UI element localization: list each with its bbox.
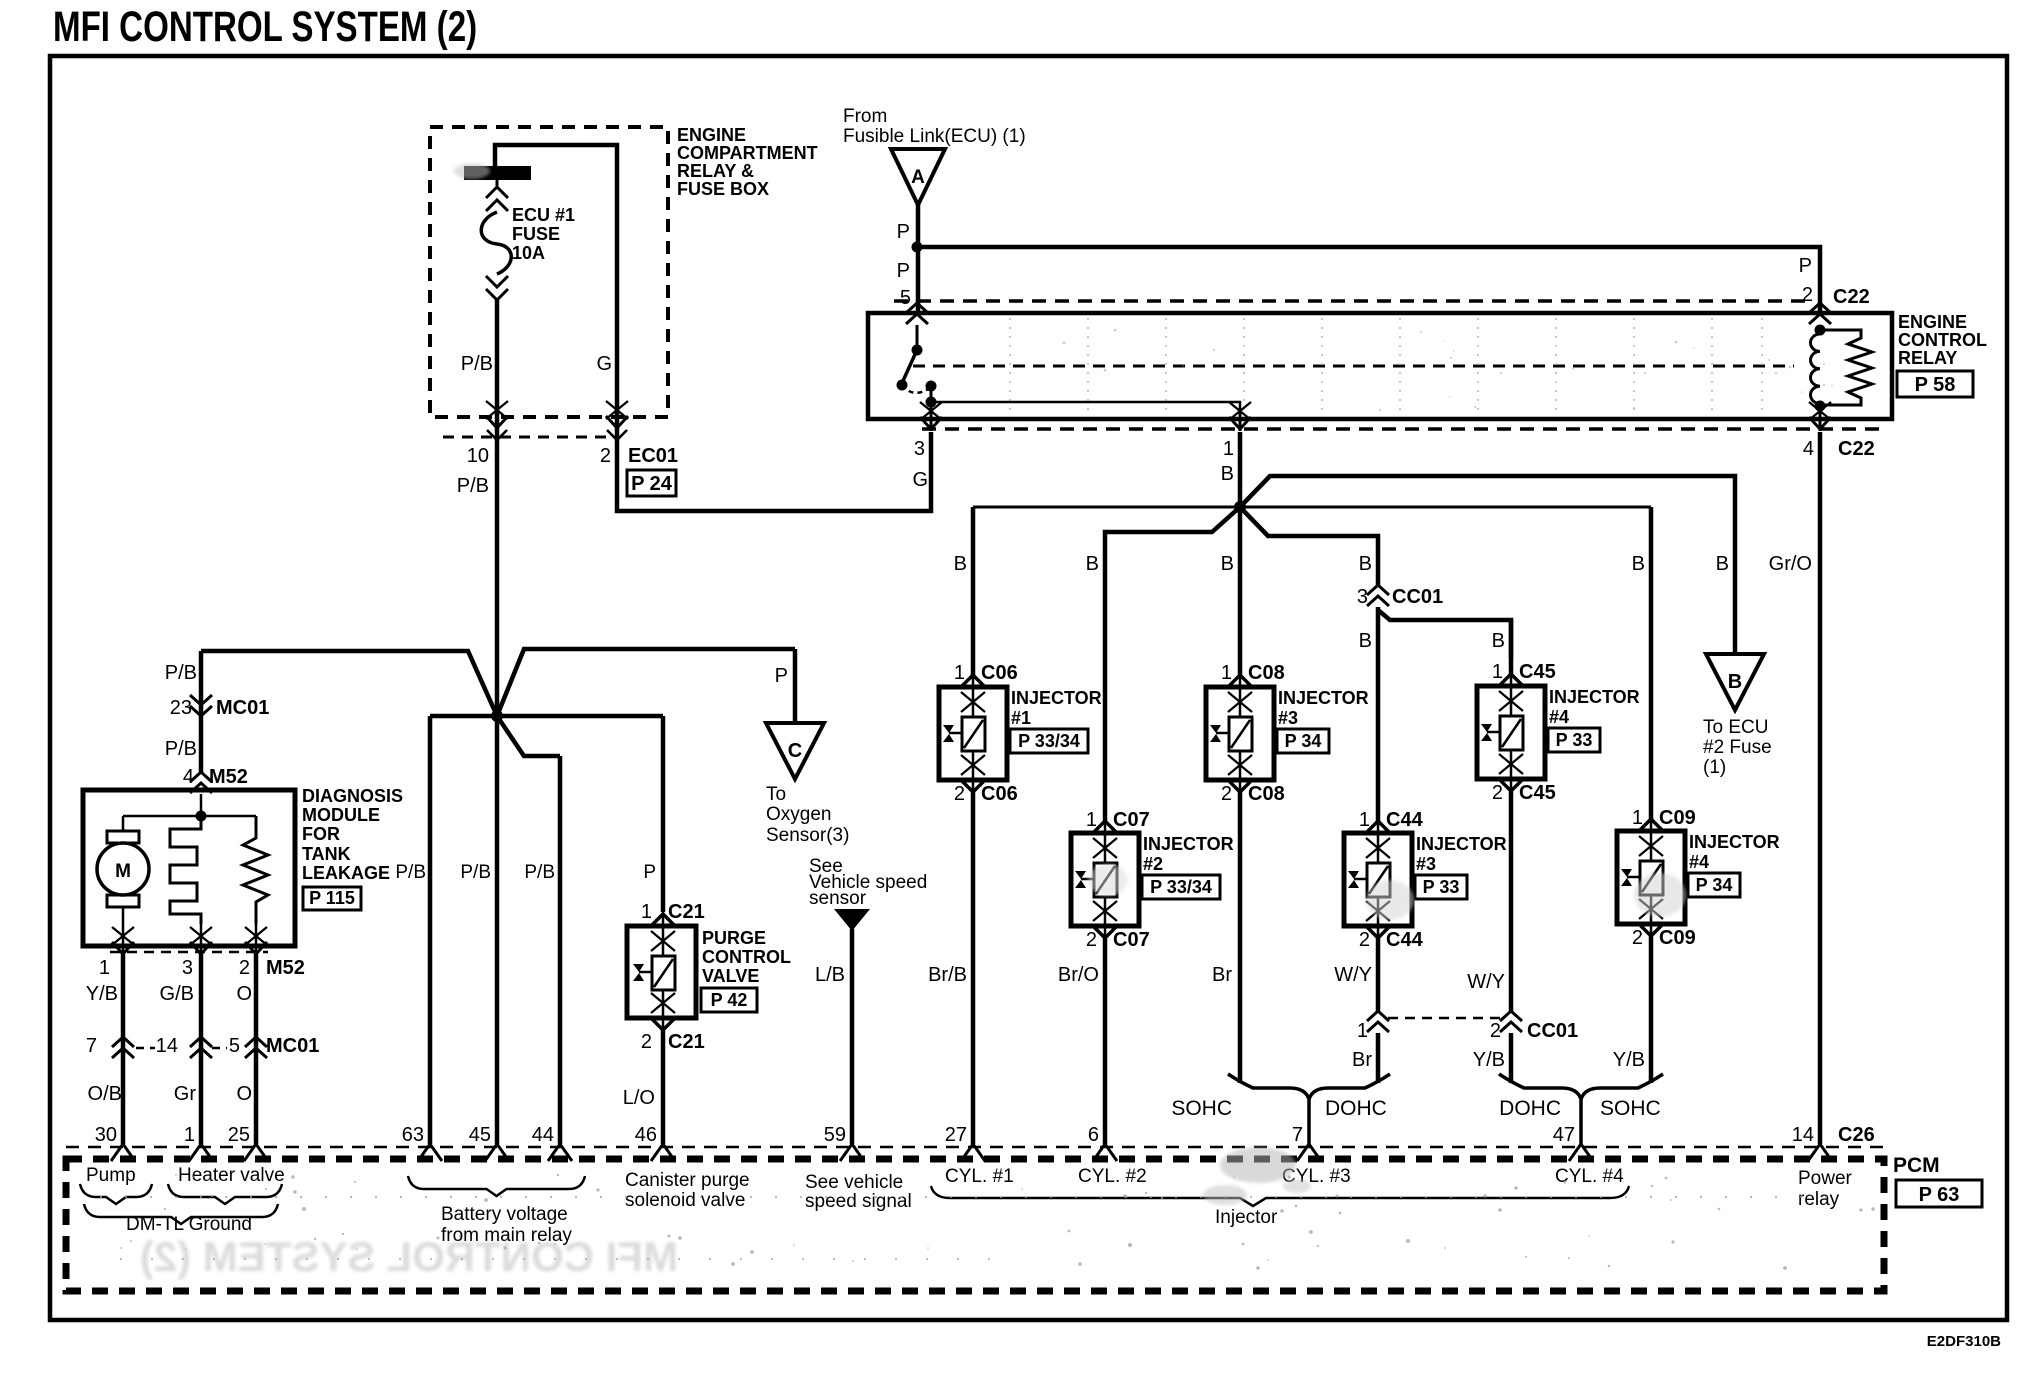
wire module riser bbox=[199, 651, 204, 772]
svg-text:1: 1 bbox=[954, 662, 965, 684]
svg-text:B: B bbox=[1221, 553, 1234, 575]
svg-text:#4: #4 bbox=[1689, 852, 1709, 872]
relay switch contact dot (right) bbox=[926, 381, 937, 392]
svg-text:ECU #1: ECU #1 bbox=[512, 205, 575, 225]
svg-text:2: 2 bbox=[1492, 782, 1503, 804]
relay pin 4 exit arrow bbox=[1819, 406, 1822, 431]
svg-text:2: 2 bbox=[1359, 929, 1370, 951]
svg-text:C07: C07 bbox=[1113, 929, 1150, 951]
relay internal dashed line bbox=[913, 365, 1794, 368]
connector C22 dashed line (bottom) bbox=[922, 427, 1888, 431]
svg-text:C21: C21 bbox=[668, 1031, 705, 1053]
wire B inj3 down bbox=[1238, 507, 1243, 675]
connector CC01 dashed link bbox=[1388, 1017, 1500, 1020]
wire O heater2 bbox=[254, 950, 259, 1144]
svg-text:2: 2 bbox=[1086, 929, 1097, 951]
svg-text:DIAGNOSIS: DIAGNOSIS bbox=[302, 786, 403, 806]
svg-text:Pump: Pump bbox=[86, 1165, 136, 1186]
relay pin 3 exit arrow bbox=[930, 402, 933, 431]
svg-text:P 58: P 58 bbox=[1915, 374, 1956, 396]
EC01 connector dashed line bbox=[443, 436, 606, 439]
svg-text:Br: Br bbox=[1352, 1049, 1372, 1071]
diagnosis module box bbox=[83, 790, 295, 946]
svg-text:B: B bbox=[1492, 630, 1505, 652]
wire branch to diagnosis module bbox=[201, 651, 497, 716]
svg-text:INJECTOR: INJECTOR bbox=[1416, 834, 1507, 854]
injector #3 DOHC (C44) bbox=[1344, 833, 1412, 926]
svg-text:C45: C45 bbox=[1519, 782, 1556, 804]
svg-text:P/B: P/B bbox=[165, 738, 197, 760]
svg-text:3: 3 bbox=[914, 438, 925, 460]
resistor R1 (module) bbox=[243, 816, 268, 924]
svg-text:G: G bbox=[912, 469, 928, 491]
svg-text:23: 23 bbox=[170, 697, 192, 719]
svg-text:P: P bbox=[775, 665, 788, 687]
wire P/B down to pin 63 bbox=[428, 716, 433, 1144]
svg-text:CONTROL: CONTROL bbox=[702, 947, 791, 967]
svg-text:C45: C45 bbox=[1519, 661, 1556, 683]
title MFI CONTROL SYSTEM (2) bbox=[53, 3, 477, 51]
svg-text:DM-TL Ground: DM-TL Ground bbox=[126, 1214, 252, 1235]
relay coil bbox=[1811, 330, 1821, 404]
merge cyl4 (DOHC+SOHC) bbox=[1499, 1074, 1581, 1144]
svg-text:CC01: CC01 bbox=[1527, 1020, 1578, 1042]
svg-text:C44: C44 bbox=[1386, 929, 1424, 951]
svg-text:1: 1 bbox=[99, 957, 110, 979]
svg-text:7: 7 bbox=[86, 1035, 97, 1057]
svg-text:RELAY: RELAY bbox=[1898, 348, 1957, 368]
node junction dot (P feed) bbox=[912, 242, 923, 253]
wire P to triangle C bbox=[793, 649, 798, 723]
wire branch inj4 C45 vertical bbox=[1509, 620, 1514, 674]
connector triangle A bbox=[891, 149, 945, 205]
svg-text:1: 1 bbox=[1632, 807, 1643, 829]
module exit pin 2 bbox=[255, 924, 258, 950]
svg-text:B: B bbox=[1728, 671, 1742, 693]
svg-text:O: O bbox=[236, 1083, 252, 1105]
scan ghost text bbox=[140, 1233, 678, 1280]
brace heater valve bbox=[168, 1184, 282, 1204]
injector #4 DOHC (C45) bbox=[1477, 686, 1545, 779]
svg-text:FUSE: FUSE bbox=[512, 224, 560, 244]
EC01 connector exit pin 2 bbox=[615, 408, 620, 444]
svg-text:2: 2 bbox=[1632, 927, 1643, 949]
relay switch contact dot (left) bbox=[897, 380, 908, 391]
relay pin 2 entry arrow bbox=[1809, 303, 1831, 313]
svg-text:4: 4 bbox=[183, 766, 194, 788]
wire branch to inj2 bbox=[1105, 507, 1240, 821]
svg-text:Canister purge: Canister purge bbox=[625, 1170, 750, 1191]
svg-text:CYL. #4: CYL. #4 bbox=[1555, 1166, 1624, 1187]
svg-text:speed signal: speed signal bbox=[805, 1191, 912, 1212]
svg-text:2: 2 bbox=[954, 783, 965, 805]
svg-text:4: 4 bbox=[1803, 438, 1814, 460]
svg-text:Y/B: Y/B bbox=[86, 983, 118, 1005]
wire Br (inj3 SOHC) bbox=[1238, 792, 1243, 1083]
svg-text:solenoid valve: solenoid valve bbox=[625, 1190, 745, 1211]
svg-text:P/B: P/B bbox=[395, 862, 426, 883]
svg-text:B: B bbox=[954, 553, 967, 575]
svg-text:P/B: P/B bbox=[460, 862, 491, 883]
svg-text:2: 2 bbox=[1221, 783, 1232, 805]
svg-text:59: 59 bbox=[824, 1124, 846, 1146]
svg-text:EC01: EC01 bbox=[628, 445, 678, 467]
svg-text:VALVE: VALVE bbox=[702, 966, 759, 986]
svg-text:C08: C08 bbox=[1248, 783, 1285, 805]
svg-text:#3: #3 bbox=[1278, 708, 1298, 728]
wire fuse top to EC01 pin2 branch bbox=[495, 145, 617, 410]
vehicle speed sensor terminal (solid triangle) bbox=[834, 909, 870, 931]
svg-text:14: 14 bbox=[156, 1035, 178, 1057]
page ref P 42 bbox=[701, 988, 757, 1012]
PCM box (thick dashed) bbox=[66, 1159, 1884, 1291]
svg-text:(1): (1) bbox=[1703, 757, 1726, 778]
svg-text:C22: C22 bbox=[1833, 286, 1870, 308]
fuse F1 supply bar bbox=[464, 166, 531, 180]
wire B relay pin1 down bbox=[1238, 432, 1243, 507]
svg-text:FUSE BOX: FUSE BOX bbox=[677, 179, 769, 199]
svg-text:Power: Power bbox=[1798, 1168, 1853, 1189]
fuse ECU #1 FUSE 10A symbol bbox=[496, 180, 499, 186]
page ref P 63 bbox=[1896, 1180, 1982, 1207]
svg-text:B: B bbox=[1359, 630, 1372, 652]
page ref P 115 bbox=[303, 887, 361, 910]
svg-text:To ECU: To ECU bbox=[1703, 717, 1768, 738]
wire branch to inj1 bbox=[971, 507, 976, 675]
svg-text:SOHC: SOHC bbox=[1171, 1097, 1232, 1120]
wire Br/O to pin 6 bbox=[1103, 938, 1108, 1144]
svg-text:Y/B: Y/B bbox=[1473, 1049, 1505, 1071]
wire W/Y (inj3 DOHC) bbox=[1376, 938, 1381, 1011]
svg-text:INJECTOR: INJECTOR bbox=[1143, 834, 1234, 854]
svg-text:INJECTOR: INJECTOR bbox=[1549, 687, 1640, 707]
svg-text:C07: C07 bbox=[1113, 809, 1150, 831]
svg-text:MC01: MC01 bbox=[266, 1035, 319, 1057]
svg-text:P 34: P 34 bbox=[1696, 875, 1733, 895]
svg-text:Br/B: Br/B bbox=[928, 964, 967, 986]
svg-text:P 63: P 63 bbox=[1919, 1184, 1960, 1206]
svg-text:Fusible Link(ECU) (1): Fusible Link(ECU) (1) bbox=[843, 126, 1026, 147]
PCM pin arrows and numbers bbox=[111, 1144, 135, 1161]
svg-text:M52: M52 bbox=[266, 957, 305, 979]
svg-text:44: 44 bbox=[532, 1124, 554, 1146]
svg-text:O: O bbox=[236, 983, 252, 1005]
node X1 junction dot bbox=[491, 710, 503, 722]
svg-text:L/B: L/B bbox=[815, 964, 845, 986]
svg-text:W/Y: W/Y bbox=[1334, 964, 1372, 986]
svg-text:B: B bbox=[1221, 463, 1234, 485]
engine control relay box bbox=[868, 313, 1892, 419]
svg-text:C22: C22 bbox=[1838, 438, 1875, 460]
svg-text:C44: C44 bbox=[1386, 809, 1424, 831]
svg-text:45: 45 bbox=[469, 1124, 491, 1146]
purge valve exit arrow bbox=[651, 993, 675, 1013]
svg-text:P 24: P 24 bbox=[631, 473, 673, 495]
svg-text:10: 10 bbox=[467, 445, 489, 467]
connector M52 dashed line bbox=[110, 951, 268, 954]
svg-text:P 33: P 33 bbox=[1423, 877, 1460, 897]
module internal node dot bbox=[196, 811, 207, 822]
svg-text:6: 6 bbox=[1088, 1124, 1099, 1146]
svg-text:DOHC: DOHC bbox=[1499, 1097, 1561, 1120]
relay switch common wire bbox=[916, 325, 919, 347]
wire branch to oxygen sensor C bbox=[497, 649, 795, 716]
brace DM-TL bbox=[84, 1204, 278, 1224]
svg-text:14: 14 bbox=[1792, 1124, 1814, 1146]
module exit pin 1 bbox=[122, 924, 125, 950]
svg-text:TANK: TANK bbox=[302, 844, 351, 864]
svg-text:CYL. #2: CYL. #2 bbox=[1078, 1166, 1147, 1187]
svg-text:W/Y: W/Y bbox=[1467, 971, 1505, 993]
svg-text:INJECTOR: INJECTOR bbox=[1278, 688, 1369, 708]
faint grid noise bbox=[1009, 318, 1011, 414]
svg-text:7: 7 bbox=[1292, 1124, 1303, 1146]
svg-text:25: 25 bbox=[228, 1124, 250, 1146]
injector #1 (C06) bbox=[939, 687, 1007, 780]
svg-text:E2DF310B: E2DF310B bbox=[1927, 1333, 2001, 1350]
svg-text:L/O: L/O bbox=[623, 1087, 655, 1109]
wire branch to triangle B bbox=[1240, 476, 1735, 654]
wire P/B down to pin 44 (vertical) bbox=[558, 756, 563, 1144]
svg-text:1: 1 bbox=[184, 1124, 195, 1146]
svg-text:#2 Fuse: #2 Fuse bbox=[1703, 737, 1772, 758]
wire junction horizontal (to pins 63 / purge valve) bbox=[430, 714, 663, 719]
connector MC01 dashed line bbox=[136, 1047, 155, 1050]
page ref P 58 bbox=[1897, 371, 1973, 397]
svg-text:63: 63 bbox=[402, 1124, 424, 1146]
svg-text:INJECTOR: INJECTOR bbox=[1689, 832, 1780, 852]
svg-text:5: 5 bbox=[900, 287, 911, 309]
wire G (EC01 pin2 to relay pin3) bbox=[617, 432, 931, 511]
wire node to relay pin2 (top run) bbox=[917, 247, 1820, 311]
wire L/B to pin 59 bbox=[850, 929, 855, 1144]
svg-text:47: 47 bbox=[1553, 1124, 1575, 1146]
svg-text:#1: #1 bbox=[1011, 708, 1031, 728]
svg-text:P/B: P/B bbox=[457, 475, 489, 497]
svg-text:Battery voltage: Battery voltage bbox=[441, 1204, 568, 1225]
svg-text:MFI CONTROL SYSTEM (2): MFI CONTROL SYSTEM (2) bbox=[140, 1233, 678, 1280]
svg-text:O/B: O/B bbox=[88, 1083, 122, 1105]
page ref P 24 bbox=[627, 470, 676, 496]
svg-text:INJECTOR: INJECTOR bbox=[1011, 688, 1102, 708]
brace injector bbox=[931, 1186, 1629, 1206]
connector triangle C bbox=[766, 723, 824, 779]
relay internal wire to pin 1 bbox=[931, 402, 1240, 408]
wire P/B fuse to junction bbox=[495, 444, 500, 716]
svg-text:From: From bbox=[843, 106, 887, 127]
svg-text:#3: #3 bbox=[1416, 854, 1436, 874]
svg-text:2: 2 bbox=[600, 445, 611, 467]
purge valve entry arrow bbox=[650, 914, 676, 927]
svg-text:2: 2 bbox=[641, 1031, 652, 1053]
svg-text:P 34: P 34 bbox=[1285, 731, 1322, 751]
svg-text:P: P bbox=[1799, 255, 1812, 277]
fuse box exit pin 10 bbox=[495, 408, 500, 444]
scan speckle noise bbox=[668, 1235, 671, 1238]
svg-text:Y/B: Y/B bbox=[1613, 1049, 1645, 1071]
svg-text:27: 27 bbox=[945, 1124, 967, 1146]
wire Y/B (inj4 SOHC) bbox=[1649, 936, 1654, 1083]
module internal top rail bbox=[123, 815, 256, 818]
relay switch output link bbox=[930, 386, 933, 401]
wire Y/B below CC01-2 bbox=[1509, 1033, 1514, 1083]
injector #4 SOHC (C09) bbox=[1617, 831, 1685, 924]
svg-text:CONTROL: CONTROL bbox=[1898, 330, 1987, 350]
svg-text:1: 1 bbox=[1492, 661, 1503, 683]
wire branch to pin 44 bbox=[497, 716, 560, 756]
wire junction bar (thin) bbox=[973, 506, 1651, 509]
svg-text:P: P bbox=[897, 221, 910, 243]
svg-text:C09: C09 bbox=[1659, 807, 1696, 829]
brace pump bbox=[80, 1184, 152, 1204]
svg-text:B: B bbox=[1086, 553, 1099, 575]
svg-text:P: P bbox=[643, 862, 656, 883]
wire branch to CC01 pin3 bbox=[1240, 507, 1378, 585]
svg-text:C: C bbox=[788, 740, 802, 762]
relay coil top node dot bbox=[1815, 325, 1826, 336]
PCM boundary thin dashed line bbox=[66, 1146, 1884, 1149]
svg-text:G: G bbox=[596, 353, 612, 375]
svg-text:1: 1 bbox=[1223, 438, 1234, 460]
svg-text:M: M bbox=[115, 861, 131, 882]
svg-text:See vehicle: See vehicle bbox=[805, 1172, 903, 1193]
svg-text:Br/O: Br/O bbox=[1058, 964, 1099, 986]
relay switch pivot dot bbox=[912, 345, 923, 356]
svg-text:1: 1 bbox=[1221, 662, 1232, 684]
relay node dot (switch output) bbox=[926, 397, 937, 408]
svg-text:30: 30 bbox=[95, 1124, 117, 1146]
wire Br below CC01-1 bbox=[1376, 1033, 1381, 1083]
svg-text:sensor: sensor bbox=[809, 888, 867, 909]
wire P to purge valve bbox=[661, 716, 666, 912]
svg-text:2: 2 bbox=[239, 957, 250, 979]
svg-text:RELAY &: RELAY & bbox=[677, 161, 754, 181]
svg-text:B: B bbox=[1359, 553, 1372, 575]
svg-text:#4: #4 bbox=[1549, 707, 1569, 727]
svg-text:C26: C26 bbox=[1838, 1124, 1875, 1146]
svg-text:CYL. #1: CYL. #1 bbox=[945, 1166, 1014, 1187]
wire Br/B to pin 27 bbox=[971, 792, 976, 1144]
svg-text:PCM: PCM bbox=[1893, 1154, 1940, 1177]
brace battery voltage bbox=[408, 1176, 585, 1196]
purge valve solenoid bbox=[662, 912, 665, 956]
svg-text:Sensor(3): Sensor(3) bbox=[766, 825, 849, 846]
relay pin 5 entry arrow bbox=[906, 303, 928, 313]
svg-text:P 42: P 42 bbox=[711, 990, 748, 1010]
svg-text:P/B: P/B bbox=[165, 662, 197, 684]
relay resistor (parallel) bbox=[1820, 330, 1872, 405]
svg-text:5: 5 bbox=[229, 1035, 240, 1057]
wire branch to inj4 C09 bbox=[1649, 507, 1654, 819]
svg-text:Br: Br bbox=[1212, 964, 1232, 986]
svg-text:MFI CONTROL SYSTEM (2): MFI CONTROL SYSTEM (2) bbox=[53, 3, 477, 51]
svg-text:CC01: CC01 bbox=[1392, 586, 1443, 608]
svg-text:Gr/O: Gr/O bbox=[1769, 553, 1812, 575]
svg-text:Heater valve: Heater valve bbox=[178, 1165, 285, 1186]
node X2 fan junction dot bbox=[1234, 501, 1246, 513]
svg-text:C09: C09 bbox=[1659, 927, 1696, 949]
svg-text:1: 1 bbox=[1359, 809, 1370, 831]
svg-text:M52: M52 bbox=[209, 766, 248, 788]
svg-text:DOHC: DOHC bbox=[1325, 1097, 1387, 1120]
svg-text:3: 3 bbox=[182, 957, 193, 979]
svg-text:C08: C08 bbox=[1248, 662, 1285, 684]
svg-text:G/B: G/B bbox=[160, 983, 194, 1005]
svg-text:ENGINE: ENGINE bbox=[1898, 312, 1967, 332]
relay switch blade bbox=[902, 350, 917, 383]
wire Y/B pump bbox=[121, 950, 126, 1144]
svg-text:relay: relay bbox=[1798, 1189, 1840, 1210]
injector #3 SOHC (C08) bbox=[1206, 687, 1274, 780]
svg-text:P 33: P 33 bbox=[1556, 730, 1593, 750]
connector triangle B bbox=[1706, 654, 1764, 710]
wire CC01-3 split bbox=[1376, 607, 1381, 821]
relay coil bottom node dot bbox=[1815, 401, 1826, 412]
svg-text:P 33/34: P 33/34 bbox=[1150, 877, 1212, 897]
wire A to node bbox=[916, 205, 921, 311]
svg-text:P 115: P 115 bbox=[309, 888, 355, 908]
svg-text:C06: C06 bbox=[981, 662, 1018, 684]
wire P/B down to pin 45 bbox=[495, 716, 500, 1144]
module exit pin 3 bbox=[200, 924, 203, 950]
svg-text:B: B bbox=[1632, 553, 1645, 575]
svg-text:MODULE: MODULE bbox=[302, 805, 380, 825]
svg-text:To: To bbox=[766, 784, 786, 805]
svg-text:MC01: MC01 bbox=[216, 697, 269, 719]
svg-text:Injector: Injector bbox=[1215, 1207, 1278, 1228]
svg-text:C21: C21 bbox=[668, 901, 705, 923]
wire Gr/O relay pin4 down bbox=[1818, 432, 1823, 1144]
wire L/O to pin 46 bbox=[661, 1030, 666, 1144]
engine compartment relay & fuse box (dashed enclosure) bbox=[430, 127, 668, 417]
motor M1 (pump) bbox=[122, 816, 125, 831]
svg-text:10A: 10A bbox=[512, 243, 545, 263]
relay switch dashed throw arc bbox=[902, 385, 930, 393]
svg-text:ENGINE: ENGINE bbox=[677, 125, 746, 145]
svg-text:1: 1 bbox=[641, 901, 652, 923]
merge cyl3 (SOHC+DOHC) bbox=[1228, 1074, 1309, 1144]
svg-text:A: A bbox=[911, 167, 925, 188]
relay pin 1 exit arrow bbox=[1239, 408, 1242, 431]
svg-text:LEAKAGE: LEAKAGE bbox=[302, 863, 390, 883]
injector #2 (C07) bbox=[1071, 833, 1139, 926]
svg-text:1: 1 bbox=[1086, 809, 1097, 831]
svg-text:P/B: P/B bbox=[461, 353, 493, 375]
wire W/Y (inj4 DOHC) bbox=[1509, 791, 1514, 1011]
svg-text:COMPARTMENT: COMPARTMENT bbox=[677, 143, 818, 163]
svg-text:Gr: Gr bbox=[174, 1083, 197, 1105]
svg-text:P 33/34: P 33/34 bbox=[1018, 731, 1080, 751]
svg-text:SOHC: SOHC bbox=[1600, 1097, 1661, 1120]
svg-text:P/B: P/B bbox=[524, 862, 555, 883]
svg-text:#2: #2 bbox=[1143, 854, 1163, 874]
heater element (comb) bbox=[170, 816, 201, 924]
purge control valve box bbox=[627, 926, 696, 1018]
wire G/B heater bbox=[199, 950, 204, 1144]
svg-text:C06: C06 bbox=[981, 783, 1018, 805]
svg-text:FOR: FOR bbox=[302, 824, 340, 844]
svg-text:PURGE: PURGE bbox=[702, 928, 766, 948]
svg-text:P: P bbox=[897, 260, 910, 282]
svg-text:Oxygen: Oxygen bbox=[766, 804, 831, 825]
connector C22 dashed line (top) bbox=[894, 299, 1805, 303]
svg-text:46: 46 bbox=[635, 1124, 657, 1146]
svg-text:B: B bbox=[1716, 553, 1729, 575]
